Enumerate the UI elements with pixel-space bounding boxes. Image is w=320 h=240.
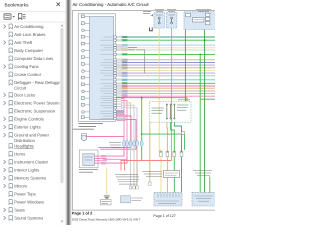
svg-text:Sound Systems: Sound Systems [14,216,43,221]
panel close button [57,3,61,7]
header separator [0,11,66,13]
wire GRN net at y=54.4 [116,53,215,55]
ground G305 [101,200,112,205]
sensor icon S10 [81,76,84,79]
bookmark item: Computer Data Lines [9,56,53,61]
svg-text:Mirrors: Mirrors [14,184,27,189]
svg-text:Electronic Suspension: Electronic Suspension [14,109,56,114]
wire label chip LTBLU [117,44,122,46]
FB1 right terminals [206,13,210,16]
svg-text:2003 Chevy Truck Silverado 150: 2003 Chevy Truck Silverado 1500 2WD V8-5… [72,217,141,221]
U1 body (HVAC control module) [90,17,114,120]
wire GRN short right [209,177,211,193]
bookmark item: Electronic Suspension [9,109,56,114]
junction dots [199,54,201,56]
blower resistor R1 [164,171,180,178]
bookmark item: Interior Lights [4,168,40,173]
svg-text:Defogger - Rear Defogger: Defogger - Rear Defogger [14,80,62,85]
wire label chip GRN [117,82,122,84]
wire YEL vertical from F1 [158,28,160,153]
wire TAN net at y=59.8 [116,59,215,61]
fuse F1 symbol [158,17,160,19]
svg-text:Air Conditioning: Air Conditioning [14,24,44,29]
diagram border [72,11,216,211]
wire label chip PPL [117,93,122,95]
bookmark item: Seats [4,208,25,213]
wire label chip GRN [117,39,122,41]
svg-text:Circuit: Circuit [14,86,27,91]
bookmark item: Memory Systems [4,176,47,181]
wire label chip TAN [117,67,122,69]
wire stub at y=102.8 [116,103,130,141]
wire GRN net at y=40.2 [116,39,215,41]
wire PPL chip rows [117,110,124,112]
toolbar separator [0,21,66,23]
sensor icon S14 [81,103,84,106]
wire TAN net at y=88.2 [116,87,215,89]
underhood fuse block FB1 [184,12,216,30]
wire LTBLU net at y=75.8 [116,75,215,77]
wire GRN branch down [141,98,143,161]
motor M1 blend door [81,135,86,140]
wire label chip PNK [117,95,122,97]
inline connectors on column [159,150,162,152]
bookmark item: Electronic Power Steering [4,101,63,106]
toolbar new-bookmark icon [18,14,21,20]
svg-text:Engine Controls: Engine Controls [14,117,43,122]
wire GRY net at y=91 [116,90,215,92]
connector label block [109,142,121,144]
toolbar options icon [4,14,11,19]
U1 pin boxes [114,36,117,120]
svg-text:Seats: Seats [14,208,25,213]
wire PPL net at y=73.1 [116,72,215,74]
wire GRN spur right [200,98,215,100]
actuator A1 body [83,154,95,166]
bookmark item: Horns [9,152,25,157]
fuse F2 box [166,13,177,28]
wire RED vertical from FB1 [184,30,186,102]
actuator A1 outer box [79,150,98,168]
bookmark item: Anti-Lock Brakes [9,32,46,37]
sensor icon S1 [81,15,84,18]
wire stub at y=100.6 [116,101,127,141]
compressor label above [193,170,212,172]
wire LTGRN net at y=79.8 [116,79,215,81]
wire PNK from M1 [87,136,124,138]
wire PNK net at y=86 [116,85,215,87]
panel splitter / page shadow [65,0,67,225]
svg-text:Page 1 of 127: Page 1 of 127 [153,214,175,218]
svg-text:Electronic Power Steering: Electronic Power Steering [14,101,62,106]
wire stub at y=105.3 [116,105,134,140]
sensor icon S4 [81,35,84,38]
svg-text:Body Computer: Body Computer [14,48,43,53]
label above M1 [73,128,94,130]
sensor icon S7 [81,56,84,59]
scrollbar down arrow [61,221,63,223]
U1 reference label [79,123,104,125]
wire label chip DKGRN [117,36,122,38]
wire PNK from U1 pin to node C1 [98,116,131,147]
wire label chip GRN [117,53,122,55]
wire GRN into K2 [116,98,187,102]
svg-text:Ground and Power: Ground and Power [14,133,49,138]
wire label chip TAN [117,87,122,89]
K2 label [152,107,165,109]
sensor text block [115,174,138,176]
sensor icon S12 [82,90,85,93]
fuse F2 symbol [171,17,173,19]
sensor icon S3 [82,29,85,32]
bookmark item: Exterior Lights [4,125,41,130]
sensor icon S6 [82,49,85,52]
svg-text:Headlights: Headlights [14,144,34,149]
K2 contact pins [166,105,168,119]
toolbar dropdown arrow [13,16,15,18]
bookmark item: Cooling Fans [4,64,39,69]
bookmark item: Sound Systems [4,216,44,221]
sensor icon S13 [81,97,84,100]
wire TAN net at y=47.8 [116,47,215,49]
svg-text:Power Windows: Power Windows [14,200,44,205]
bookmark item: Mirrors [4,184,27,189]
svg-text:Air Conditioning - Automatic A: Air Conditioning - Automatic A/C Circuit [73,2,150,7]
FB1 inner fuse [186,13,191,16]
wire YEL net at y=70.4 [116,69,215,71]
wire PNK net at y=96.2 [116,95,215,97]
A/C compressor CL1 box [192,192,216,206]
wire GRN vertical right B [204,30,206,193]
sensor icon S9 [82,70,85,73]
wire label chip PNK [117,85,122,87]
U1 pin name rows [100,37,113,119]
connector terminals bottom [129,186,131,189]
wire PPL net at y=93.6 [116,93,215,95]
relay K1 in FB1 [193,18,205,22]
fuse F1 box [154,13,165,28]
wire GRN net at y=83.3 [116,82,215,84]
wire GRY net at y=50 [116,49,215,51]
svg-text:Door Locks: Door Locks [14,93,35,98]
blower motor B1 box [154,192,182,206]
connector C3 box [121,196,131,203]
scrollbar thumb [60,28,63,183]
bookmark item: Power Tops [9,192,36,197]
svg-text:Cruise Control: Cruise Control [14,72,41,77]
wire label chip LTBLU [117,61,122,63]
wire label chip PPL [117,64,122,66]
wire label chip PPL [117,72,122,74]
svg-text:Page 1 of 2: Page 1 of 2 [72,211,93,216]
inline connector C240 ovals [123,141,126,147]
bookmark item: Engine Controls [4,117,44,122]
wire stub at y=107.8 [116,108,137,141]
bookmark item: Instrument Cluster [4,160,49,165]
svg-text:Interior Lights: Interior Lights [14,168,39,173]
wire TAN vertical to S2 [149,122,151,182]
sensor icon S15 [82,111,85,114]
wire DKGRN net at y=37 [116,36,215,38]
sensor icon S16 [81,116,84,119]
wire PNK below connector to actuator pin [107,147,124,157]
bookmark item: Air Conditioning [4,24,45,29]
A/C compressor clutch relay K2 group box [150,101,192,122]
svg-text:Memory Systems: Memory Systems [14,176,46,181]
wire label chip LTBLU [117,75,122,77]
bookmark item: Power Windows [9,200,44,205]
svg-text:Power Tops: Power Tops [14,192,36,197]
wire LTBLU net at y=45.1 [116,44,215,46]
svg-text:Instrument Cluster: Instrument Cluster [14,160,48,165]
bookmark item: Body Computer [9,48,44,53]
bookmark item: Ground and Power [4,133,50,144]
sensor icon S8 [81,63,84,66]
sensor icon S2 [81,22,84,25]
sensor icon S11 [81,83,84,86]
wire label chip GRY [117,90,122,92]
wire label chip TAN [117,47,122,49]
bookmark item: Anti-Theft [4,40,33,45]
A1 caption [79,169,98,171]
bookmark item: Cruise Control [9,72,41,77]
op-amp U1 HVAC control module outline [78,14,115,122]
label HOT AT ALL TIMES (F2) [167,8,176,10]
wire PPL net at y=65.1 [116,64,215,66]
bookmarks panel background [0,0,66,225]
bottom column wires from K2 [159,150,161,192]
box label top [178,99,190,101]
bookmark item: Defogger - Rear Defogger [9,80,63,91]
document page [72,0,215,225]
label HOT IN RUN (underhood block) [196,8,211,10]
label HOT AT ALL TIMES (F1) [155,8,164,10]
wire PNK horizontal lower [103,158,127,160]
wire RED vertical from F2 [171,28,173,161]
svg-text:Exterior Lights: Exterior Lights [14,125,40,130]
black connector stubs [150,28,153,31]
svg-text:Anti-Theft: Anti-Theft [14,40,33,45]
bookmark item: Door Locks [4,93,36,98]
node A22 label and wire [128,47,137,49]
feed arrow label to fuse block [143,11,151,13]
wire GRN jog to compressor [142,134,185,150]
panel scrollbar track [60,23,65,226]
wire YEL to ground [106,168,108,196]
wire label chip GRY [117,49,122,51]
svg-text:Distribution: Distribution [14,138,35,143]
R1 label left [142,171,162,173]
wire LTBLU net at y=62.4 [116,61,215,63]
sensor icon S5 [81,42,84,45]
wire TAN net at y=67.8 [116,67,215,69]
wire stub at y=98.4 [116,98,124,140]
scrollbar up arrow [61,24,63,26]
svg-text:Bookmarks: Bookmarks [5,3,30,9]
A1 pin stubs PNK [95,155,108,157]
svg-text:Computer Data Lines: Computer Data Lines [14,56,53,61]
svg-text:Horns: Horns [14,152,25,157]
svg-text:Cooling Fans: Cooling Fans [14,64,38,69]
bookmark item: Headlights [9,144,34,149]
wire PNK from U1 pin to node C2 [100,120,136,150]
wire label chip TAN [117,59,122,61]
wire RED horizontal lower [121,161,172,171]
wire label chip LTGRN [117,79,122,81]
wire label chip YEL [117,69,122,71]
wires continue below connector [130,147,132,187]
svg-text:Anti-Lock Brakes: Anti-Lock Brakes [14,32,45,37]
wire GRN vertical right A [199,54,201,192]
